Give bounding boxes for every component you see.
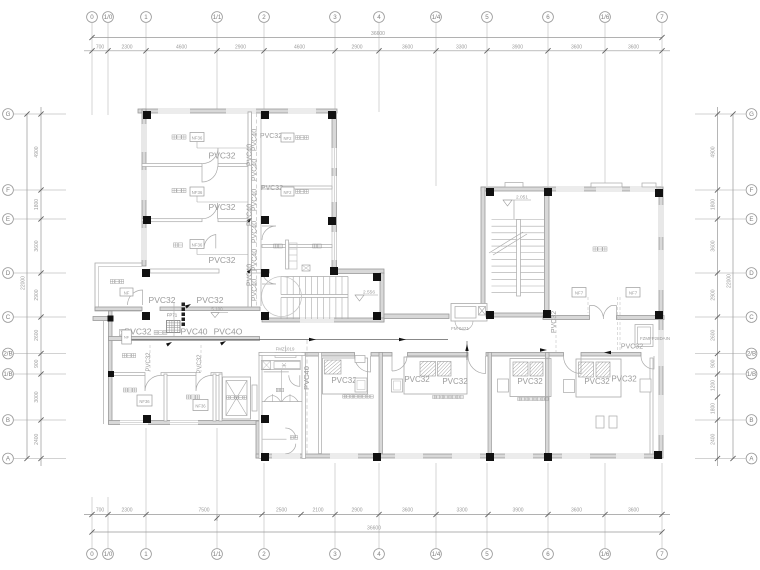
right detail dimension line <box>717 107 719 466</box>
interior wall D row east of spine <box>252 270 270 274</box>
room label pei-dian-shi <box>122 354 135 358</box>
svg-text:3000: 3000 <box>34 391 40 402</box>
central spine wall <box>248 112 252 307</box>
WC label nan-wei <box>290 436 298 439</box>
bottom total dimension line 36600 <box>92 531 662 533</box>
column at (490,192) <box>486 188 494 196</box>
svg-text:PVC32: PVC32 <box>209 151 236 161</box>
svg-text:NF36: NF36 <box>192 243 203 248</box>
column at (147,419) <box>143 415 151 423</box>
svg-text:0: 0 <box>90 14 94 21</box>
NF36 unit row2 <box>190 187 204 196</box>
column at (377,316) <box>373 312 381 320</box>
svg-text:5: 5 <box>485 551 489 558</box>
top detail dimension line <box>84 50 670 52</box>
right rooms west wall line <box>260 113 262 306</box>
svg-text:NF7: NF7 <box>575 291 584 296</box>
room text office row2 <box>172 188 186 192</box>
svg-text:1/0: 1/0 <box>104 14 113 21</box>
column at (547,314) <box>543 310 551 318</box>
lower-left divider wall y374 <box>112 373 145 376</box>
outer wall lower-left block bottom <box>109 421 260 425</box>
door arc at row2-row3 wall <box>202 203 218 219</box>
svg-text:PVC32: PVC32 <box>261 185 283 192</box>
svg-text:B: B <box>6 417 10 424</box>
svg-text:2500: 2500 <box>276 508 287 514</box>
door arcs under FM shaft box <box>455 321 464 330</box>
bathroom room3 <box>510 359 551 397</box>
door arc right room row B <box>262 270 276 284</box>
svg-text:NF36: NF36 <box>195 404 206 409</box>
WC block right wall <box>302 353 306 459</box>
room label office lower-left with NF36 <box>123 388 136 392</box>
column at (265,273) <box>261 269 269 277</box>
svg-text:PVC40: PVC40 <box>181 327 208 337</box>
NF36 unit row1 <box>190 133 204 142</box>
svg-text:3600: 3600 <box>571 508 582 514</box>
spine dashed riser line <box>256 113 258 308</box>
svg-text:FM 0421: FM 0421 <box>451 326 469 331</box>
bottom detail dimension line <box>84 514 670 516</box>
outer wall D-row jog to stair block <box>332 269 384 274</box>
big office room label <box>593 247 607 251</box>
right room wc fixture <box>640 379 651 392</box>
column at (548,192) <box>544 188 552 196</box>
column at (265,220) <box>261 216 269 224</box>
svg-text:PVC32: PVC32 <box>442 377 468 386</box>
WC inner wall below basin <box>264 371 289 373</box>
svg-text:2.051: 2.051 <box>516 195 528 201</box>
column at (334,271) <box>330 267 338 275</box>
corridor south wall west segment <box>109 337 260 341</box>
outer wall lower-left block left <box>109 311 113 424</box>
door arc room2 (hinge left, opens down-right) <box>392 356 407 371</box>
svg-text:6: 6 <box>546 551 550 558</box>
room text office row1 <box>172 135 186 139</box>
small column at corridor west end <box>108 316 114 322</box>
svg-text:1/4: 1/4 <box>432 14 441 21</box>
WC label da-wei <box>276 388 284 391</box>
svg-text:3300: 3300 <box>456 508 467 514</box>
left stair curved rail circle <box>262 277 302 317</box>
outer wall upper-left block top <box>138 109 337 113</box>
svg-text:PVC32: PVC32 <box>146 352 152 372</box>
top vertical grid lines <box>91 23 93 116</box>
svg-text:2900: 2900 <box>351 508 362 514</box>
PVC40 dashed riser x307 <box>306 340 308 454</box>
door arc room3 (hinge right) <box>468 356 486 374</box>
outer wall upper-left block right <box>332 113 337 270</box>
svg-text:5: 5 <box>485 14 489 21</box>
svg-text:3900: 3900 <box>512 508 523 514</box>
spine riser arrows <box>247 218 252 223</box>
bottom vertical grid lines <box>91 497 93 549</box>
window sill rects above right block top wall <box>591 183 622 187</box>
outer wall stairwell top <box>481 187 548 191</box>
outer wall upper-left block left <box>142 109 146 266</box>
column at (146,316) <box>142 312 150 320</box>
FM shaft box on corridor <box>451 304 487 322</box>
accessible elevator box with X <box>223 377 251 419</box>
FZMFP28DAIN tall box and labels top right <box>635 325 653 347</box>
right total dimension line 22000 <box>732 114 734 459</box>
svg-text:22000: 22000 <box>727 274 733 288</box>
interior wall row2-row3 E row <box>142 219 202 222</box>
svg-text:2300: 2300 <box>121 508 132 514</box>
svg-text:NF36: NF36 <box>192 190 203 195</box>
svg-text:PVC32: PVC32 <box>209 255 236 265</box>
arrow on rooms north wall <box>604 351 611 354</box>
door arcs lower-left rooms <box>145 376 161 392</box>
svg-text:2400: 2400 <box>711 433 717 444</box>
grid axis bubbles top <box>87 12 98 23</box>
door arc row3 at spine <box>204 235 216 249</box>
wc fixture room1 <box>355 378 367 392</box>
svg-text:2400: 2400 <box>34 433 40 444</box>
svg-text:NF: NF <box>124 291 130 296</box>
svg-text:PVC40: PVC40 <box>302 366 311 390</box>
svg-text:36600: 36600 <box>371 31 385 37</box>
dark riser marks at spine bottom <box>182 303 186 307</box>
svg-text:PVC32: PVC32 <box>331 376 357 385</box>
svg-text:2: 2 <box>262 551 266 558</box>
svg-text:3300: 3300 <box>456 45 467 51</box>
column at (377,277) <box>373 273 381 281</box>
WC stall partitions scallops <box>264 396 281 402</box>
svg-text:F: F <box>750 187 754 194</box>
column at (147,115) <box>143 111 151 119</box>
windows in top wall <box>158 109 190 114</box>
right block bottom wall east of door <box>617 316 665 320</box>
svg-text:4: 4 <box>377 551 381 558</box>
svg-text:PVC32: PVC32 <box>584 377 610 386</box>
outer wall stair block bottom <box>262 318 384 322</box>
corridor north wall stair block to FM box <box>384 314 449 319</box>
WC block left wall <box>259 353 262 459</box>
svg-text:PVC32: PVC32 <box>197 295 224 305</box>
svg-text:PVC4O: PVC4O <box>214 327 243 337</box>
svg-text:PVC32: PVC32 <box>197 354 203 374</box>
left stair landing rails <box>281 294 348 296</box>
row C room labels soiled rooms <box>274 244 283 248</box>
left total dimension line 22000 <box>26 114 28 459</box>
svg-text:1: 1 <box>144 551 148 558</box>
label under bathroom2 <box>433 395 464 398</box>
svg-text:NF36: NF36 <box>139 399 150 404</box>
svg-text:B: B <box>749 417 753 424</box>
svg-text:7: 7 <box>660 14 664 21</box>
grid axis bubbles left with leaders <box>3 109 14 120</box>
svg-text:PVC32: PVC32 <box>551 311 558 333</box>
svg-text:7: 7 <box>660 551 664 558</box>
svg-text:G: G <box>749 111 754 118</box>
column at (659,315) <box>655 311 663 319</box>
svg-text:7500: 7500 <box>198 508 209 514</box>
svg-text:2/B: 2/B <box>3 351 12 358</box>
bathroom room2 double <box>404 357 467 394</box>
shaft ladder in row C <box>286 240 289 269</box>
svg-text:1/B: 1/B <box>747 371 756 378</box>
svg-text:2900: 2900 <box>235 45 246 51</box>
outer wall stairwell left <box>481 187 485 315</box>
WC lower wall <box>263 438 287 440</box>
svg-text:NF2: NF2 <box>284 190 293 195</box>
small box with X near D row <box>302 265 310 271</box>
svg-text:D: D <box>6 270 11 277</box>
column at (265,457) <box>261 453 269 461</box>
right stairwell diagonal break line <box>489 232 523 253</box>
svg-text:G: G <box>6 111 11 118</box>
svg-text:1800: 1800 <box>34 199 40 210</box>
column at (490,457) <box>486 453 494 461</box>
outer wall right block top <box>543 187 663 191</box>
svg-text:NF7: NF7 <box>629 291 638 296</box>
right room door arc <box>641 356 654 369</box>
svg-text:36600: 36600 <box>367 526 381 532</box>
right stairwell up arrow line <box>513 200 515 219</box>
column at (659,193) <box>655 189 663 197</box>
corridor pipe line with arrows <box>122 339 448 341</box>
svg-text:3600: 3600 <box>711 240 717 251</box>
svg-text:1/B: 1/B <box>3 371 12 378</box>
WC center partition line <box>280 370 282 402</box>
svg-text:22000: 22000 <box>21 276 27 290</box>
riser line with arrow near room2 <box>466 341 468 360</box>
column at (548,457) <box>544 453 552 461</box>
NF7 unit left <box>572 288 586 298</box>
svg-text:E: E <box>6 216 10 223</box>
svg-text:PVC40: PVC40 <box>247 264 254 286</box>
svg-text:PVC32: PVC32 <box>149 295 176 305</box>
outer wall building right <box>659 187 663 458</box>
svg-text:1: 1 <box>144 14 148 21</box>
right rooms divider y187 <box>262 186 332 189</box>
svg-text:3: 3 <box>333 551 337 558</box>
column at (490,315) <box>486 311 494 319</box>
svg-text:2100: 2100 <box>312 508 323 514</box>
column at (332,221) <box>328 217 336 225</box>
svg-text:1/6: 1/6 <box>601 14 610 21</box>
left detail dimension line <box>40 107 42 466</box>
corridor north wall west segment <box>95 307 142 311</box>
WC door arc top right <box>289 375 300 386</box>
svg-text:1800: 1800 <box>711 403 717 414</box>
svg-text:3600: 3600 <box>402 508 413 514</box>
bathroom room1 <box>323 358 368 394</box>
arrow near spine top of corridor <box>185 304 191 309</box>
svg-text:700: 700 <box>96 508 105 514</box>
grid axis bubbles bottom <box>87 549 98 560</box>
svg-text:6: 6 <box>546 14 550 21</box>
bathroom room4 <box>576 359 621 397</box>
room divider walls bottom band <box>319 353 322 454</box>
svg-text:1/6: 1/6 <box>601 551 610 558</box>
column at (147,220) <box>143 216 151 224</box>
svg-text:3600: 3600 <box>34 240 40 251</box>
door arc in left-block south wall <box>128 290 143 305</box>
label under bathroom1 <box>343 395 374 398</box>
svg-text:0: 0 <box>90 551 94 558</box>
svg-text:NF36: NF36 <box>192 136 203 141</box>
svg-text:4600: 4600 <box>176 45 187 51</box>
svg-text:3900: 3900 <box>512 45 523 51</box>
small column on left wall at 1/B <box>108 371 114 377</box>
column at (146,273) <box>142 269 150 277</box>
svg-text:C: C <box>749 314 754 321</box>
svg-text:C: C <box>6 314 11 321</box>
svg-text:E: E <box>749 216 753 223</box>
svg-text:1/4: 1/4 <box>432 551 441 558</box>
svg-text:2300: 2300 <box>121 45 132 51</box>
svg-text:3600: 3600 <box>402 45 413 51</box>
svg-text:700: 700 <box>96 45 105 51</box>
svg-text:PVC32: PVC32 <box>209 202 236 212</box>
svg-text:PVC32: PVC32 <box>260 133 282 140</box>
narrow shaft next to elevator <box>252 385 257 411</box>
WC mid wall <box>262 401 302 403</box>
svg-text:PVC40: PVC40 <box>247 204 254 226</box>
door arcs at row1-row2 wall <box>203 148 219 164</box>
NF36 unit row3 <box>190 240 204 249</box>
svg-text:900: 900 <box>711 359 717 368</box>
svg-text:PVC32: PVC32 <box>621 344 643 351</box>
label under bathroom3 <box>518 397 548 400</box>
svg-text:2: 2 <box>262 14 266 21</box>
svg-text:PVC32: PVC32 <box>404 375 430 384</box>
outer wall bottom band bottom <box>256 454 662 458</box>
column at (332,115) <box>328 111 336 119</box>
fixtures room4 lower closets <box>596 416 604 428</box>
svg-text:3: 3 <box>333 14 337 21</box>
grid axis bubbles right with leaders <box>746 109 757 120</box>
svg-text:1200: 1200 <box>711 380 717 391</box>
column at (658,455) <box>654 451 662 459</box>
WC block top wall <box>259 353 305 356</box>
right stairwell treads <box>492 219 545 221</box>
interior wall row1-row2 <box>142 164 202 167</box>
FP71 hatched box in corridor <box>167 321 181 333</box>
door arc right room row A <box>262 226 276 240</box>
column at (265,316) <box>261 312 269 320</box>
top total dimension line 36600 <box>92 37 662 39</box>
svg-text:2600: 2600 <box>34 329 40 340</box>
svg-text:FP71: FP71 <box>167 313 178 318</box>
column at (265,115) <box>261 111 269 119</box>
NF7 unit right <box>626 288 640 298</box>
svg-text:F: F <box>6 187 10 194</box>
window sill above stairwell <box>505 183 523 188</box>
vertical walls between lower-left rooms <box>164 374 167 421</box>
left stair treads upper flight <box>280 277 282 295</box>
hotel rooms north wall segments <box>302 353 355 357</box>
svg-text:NF2: NF2 <box>284 136 293 141</box>
svg-text:5.100: 5.100 <box>211 307 223 312</box>
left stair treads lower flight <box>280 298 282 320</box>
small fixture box left of room1 door <box>355 356 365 363</box>
svg-text:1/1: 1/1 <box>213 14 222 21</box>
svg-text:D: D <box>749 270 754 277</box>
right block bottom wall west of door <box>543 316 590 320</box>
west end step wall at corridor <box>93 317 108 321</box>
svg-text:PVC32: PVC32 <box>611 375 637 384</box>
svg-text:3600: 3600 <box>571 45 582 51</box>
svg-text:3600: 3600 <box>628 45 639 51</box>
svg-text:2900: 2900 <box>34 289 40 300</box>
shared wall stairwell right / big room left <box>545 191 550 315</box>
NF box on left wall row4 <box>122 330 132 344</box>
room label xiao-can-shi with NF36 <box>186 395 199 399</box>
svg-text:NF: NF <box>124 335 130 340</box>
row4 room label and NF unit <box>110 280 123 284</box>
column at (377,457) <box>373 453 381 461</box>
column at (265,419) <box>261 415 269 423</box>
svg-text:2.556: 2.556 <box>363 290 375 296</box>
svg-text:PVC40: PVC40 <box>247 144 254 166</box>
bay porch outline left <box>95 263 142 311</box>
svg-text:900: 900 <box>34 359 40 368</box>
svg-text:4900: 4900 <box>711 146 717 157</box>
svg-text:1/1: 1/1 <box>213 551 222 558</box>
svg-text:2900: 2900 <box>351 45 362 51</box>
interior wall row3-row4 D row <box>150 269 219 273</box>
outer wall step down at WC block <box>256 421 260 458</box>
svg-text:4: 4 <box>377 14 381 21</box>
svg-text:1800: 1800 <box>711 199 717 210</box>
right stairwell center stringer <box>517 220 521 297</box>
svg-text:2/B: 2/B <box>747 351 756 358</box>
WC lower door arcs <box>285 428 296 439</box>
tiny X-box at corridor west labels <box>120 330 126 337</box>
WC washbasin counter box with X-box and star basin <box>261 361 300 370</box>
right rooms divider y245 <box>262 245 332 248</box>
svg-text:FZMFP28DAIN: FZMFP28DAIN <box>640 336 670 341</box>
svg-text:4900: 4900 <box>34 146 40 157</box>
svg-text:2900: 2900 <box>711 289 717 300</box>
riser pipe vertical line near FP71 <box>173 302 175 336</box>
corridor north wall stairwell bottom <box>486 313 548 317</box>
door arc room1 (hinge right, opens down-left) <box>355 356 371 372</box>
door arc room4 (hinge left) <box>564 356 582 374</box>
double door arcs in right block bottom wall <box>590 306 617 320</box>
svg-text:1/0: 1/0 <box>104 551 113 558</box>
svg-text:PVC32: PVC32 <box>517 377 543 386</box>
outer wall stair block right <box>380 273 384 322</box>
room text row3 <box>173 243 182 247</box>
svg-text:3600: 3600 <box>628 508 639 514</box>
svg-text:2600: 2600 <box>711 329 717 340</box>
svg-text:4600: 4600 <box>294 45 305 51</box>
